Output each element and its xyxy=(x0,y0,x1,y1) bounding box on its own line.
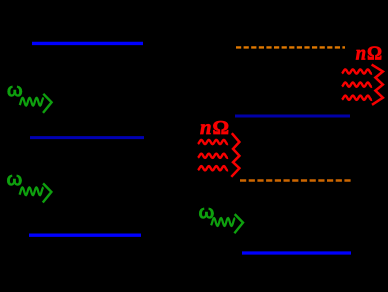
svg-text:nΩ: nΩ xyxy=(200,117,229,139)
svg-text:ω: ω xyxy=(6,169,22,190)
svg-text:ω: ω xyxy=(198,203,214,224)
svg-text:nΩ: nΩ xyxy=(356,43,383,65)
svg-text:ω: ω xyxy=(7,81,23,102)
